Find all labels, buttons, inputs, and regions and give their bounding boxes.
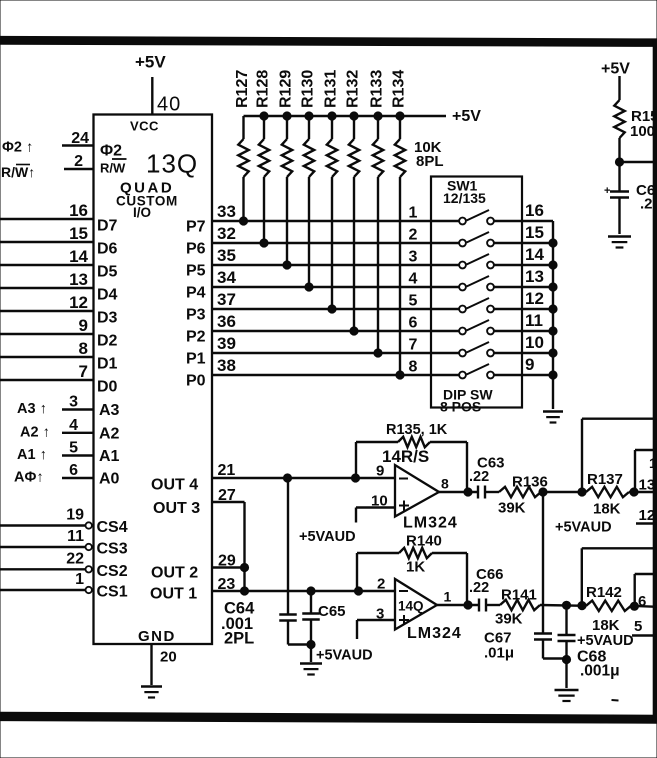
pin 3 wire (A3) [62, 394, 94, 411]
svg-text:.2: .2 [640, 196, 653, 213]
resistor R127 [238, 116, 248, 225]
label R127 [234, 70, 251, 108]
svg-text:.01μ: .01μ [484, 645, 514, 662]
svg-text:R129: R129 [278, 70, 295, 108]
svg-text:P3: P3 [186, 307, 206, 324]
signal &#934;2&#8593; [2, 140, 33, 156]
pin 7 wire (D0) [0, 362, 94, 381]
capacitor C65 [302, 591, 345, 662]
svg-text:13: 13 [525, 267, 544, 286]
pin label P6 [186, 241, 206, 258]
pin 20 wire (GND) [152, 644, 177, 685]
svg-text:R128: R128 [255, 70, 272, 108]
svg-text:38: 38 [217, 356, 236, 375]
svg-text:D1: D1 [97, 356, 118, 373]
pin 21 wire (OUT 4) [212, 462, 395, 479]
svg-text:R132: R132 [345, 70, 362, 108]
svg-text:11: 11 [67, 528, 84, 545]
label R133 [369, 70, 386, 108]
svg-text:A0: A0 [99, 471, 120, 488]
pin 29 wire (OUT 2) [212, 553, 249, 572]
ground (RC filter) [608, 237, 631, 248]
svg-text:Φ2 ↑: Φ2 ↑ [2, 140, 33, 156]
pin label P2 [186, 329, 206, 346]
wire R15 to C [615, 138, 623, 192]
pin 13 wire [522, 267, 557, 291]
svg-text:18K: 18K [592, 617, 620, 634]
pin 40 (VCC) [157, 94, 181, 116]
svg-text:6: 6 [69, 462, 78, 479]
svg-text:D0: D0 [97, 379, 118, 396]
pin label D6 [97, 241, 118, 258]
svg-text:.001μ: .001μ [580, 663, 620, 680]
op-amp U14Q [376, 576, 462, 643]
svg-text:13Q: 13Q [146, 149, 198, 179]
svg-text:12: 12 [525, 289, 544, 308]
pin 16 wire [522, 201, 553, 221]
svg-text:R130: R130 [300, 70, 317, 108]
svg-text:6: 6 [409, 315, 418, 332]
svg-text:.22: .22 [469, 469, 489, 485]
svg-text:P1: P1 [186, 351, 206, 368]
wire C63 to R136 [485, 491, 499, 493]
capacitor C68 .001u [558, 605, 620, 688]
svg-text:19: 19 [66, 507, 84, 524]
wire loop (lower) [582, 548, 657, 605]
ground (IC) [141, 687, 162, 698]
pin 23 wire (OUT 1) [212, 576, 395, 595]
svg-text:14: 14 [69, 247, 88, 266]
pin label OUT 2 [151, 565, 198, 582]
wire OUT4 junction to R135 [351, 474, 359, 482]
resistor R132 [349, 112, 359, 335]
svg-text:1K: 1K [406, 559, 425, 576]
svg-text:16: 16 [69, 201, 88, 220]
pin 1 wire (CS1) [0, 571, 92, 593]
svg-text:10: 10 [525, 333, 544, 352]
svg-text:I/O: I/O [133, 205, 151, 220]
pin 9 wire [522, 355, 557, 379]
svg-text:8: 8 [409, 359, 418, 376]
svg-text:R/W: R/W [100, 161, 126, 176]
pin 10 wire [522, 333, 557, 357]
svg-text:A1: A1 [99, 448, 120, 465]
svg-text:CS4: CS4 [97, 519, 128, 536]
label R128 [255, 70, 272, 108]
IC (cut) pins 6/5 [632, 574, 657, 636]
svg-text:R134: R134 [391, 70, 408, 108]
svg-text:C65: C65 [318, 603, 346, 620]
wire loop (upper) [582, 419, 657, 492]
svg-text:GND: GND [138, 628, 176, 645]
wire op-amp2 output [437, 601, 479, 609]
wire pin3 to +5VAUD [357, 620, 395, 639]
svg-text:P0: P0 [186, 373, 206, 390]
IC (cut) pins 13/12 [635, 450, 657, 524]
switch pole 8 [409, 359, 522, 379]
pin label A1 [99, 448, 120, 465]
svg-text:CS2: CS2 [97, 563, 128, 580]
svg-text:39K: 39K [498, 500, 526, 517]
svg-text:39: 39 [217, 334, 236, 353]
pin label A3 [99, 402, 120, 419]
wire OUT4 junction to C64 [283, 474, 291, 482]
pin label OUT 1 [150, 586, 197, 603]
pin label D7 [97, 218, 118, 235]
capacitor C6 [604, 182, 655, 213]
resistor R129 [282, 112, 292, 269]
svg-text:8: 8 [441, 476, 449, 492]
svg-text:D7: D7 [97, 218, 118, 235]
pin 6 wire (A0) [62, 462, 94, 479]
pin 15 wire [522, 223, 557, 247]
svg-text:35: 35 [217, 246, 236, 265]
pin label D4 [97, 287, 118, 304]
pin 5 wire (A1) [62, 440, 94, 457]
op-amp U14R/S [371, 447, 458, 532]
svg-text:15: 15 [525, 223, 544, 242]
svg-text:1: 1 [409, 205, 418, 222]
svg-text:.22: .22 [469, 580, 489, 596]
pin 33 wire (P7) [212, 202, 459, 221]
svg-text:2: 2 [409, 227, 418, 244]
svg-text:29: 29 [218, 553, 236, 570]
ground (C67/C68) [555, 690, 579, 701]
svg-text:+5V: +5V [601, 61, 630, 78]
pin 12 wire (D3) [0, 293, 94, 312]
switch pole 3 [409, 249, 522, 269]
capacitor C64 .001 2PL [221, 478, 297, 648]
pin label D0 [97, 379, 118, 396]
svg-text:R133: R133 [369, 70, 386, 108]
resistor R142 18K [586, 584, 631, 634]
svg-text:OUT 4: OUT 4 [151, 477, 198, 494]
svg-text:R127: R127 [234, 70, 251, 108]
pin 4 wire (A2) [62, 417, 94, 434]
svg-text:7: 7 [79, 362, 88, 381]
svg-text:23: 23 [218, 576, 236, 593]
pin label P3 [186, 307, 206, 324]
pin 12 wire [522, 289, 557, 313]
svg-text:+5VAUD: +5VAUD [316, 648, 373, 664]
ground (SW1 bus) [543, 412, 563, 423]
svg-text:34: 34 [217, 268, 236, 287]
net +5VAUD (pin3) [316, 648, 373, 664]
svg-text:R140: R140 [406, 533, 442, 550]
svg-text:1: 1 [444, 589, 452, 605]
pin 39 wire (P1) [212, 334, 459, 353]
ground (C64/C65) [300, 664, 322, 675]
svg-text:+: + [604, 185, 610, 197]
label R129 [278, 70, 295, 108]
svg-text:D6: D6 [97, 241, 118, 258]
resistor R134 [395, 112, 405, 379]
svg-text:P5: P5 [186, 263, 206, 280]
wire C67 to C68 node [543, 657, 567, 659]
svg-text:14: 14 [649, 455, 657, 471]
pin label CS1 [97, 584, 128, 601]
pin 11 wire (CS3) [0, 528, 92, 550]
svg-text:9: 9 [79, 316, 88, 335]
resistor R15 [614, 100, 657, 140]
switch pole 2 [409, 227, 522, 247]
label R131 [323, 70, 340, 108]
svg-text:D2: D2 [97, 333, 118, 350]
svg-text:27: 27 [218, 487, 236, 504]
pin label CS2 [97, 563, 128, 580]
node R141/R142 [540, 601, 586, 610]
resistor R128 [259, 112, 269, 247]
svg-text:4: 4 [409, 271, 418, 288]
capacitor C66 .22 [469, 566, 504, 612]
pin 36 wire (P2) [212, 312, 459, 331]
wire R142 to pin 6 [630, 602, 657, 610]
svg-text:2: 2 [74, 153, 83, 170]
svg-text:P2: P2 [186, 329, 206, 346]
svg-text:5: 5 [409, 293, 418, 310]
svg-text:33: 33 [217, 202, 236, 221]
pin label D5 [97, 264, 118, 281]
svg-text:+5V: +5V [452, 108, 481, 125]
svg-text:+5VAUD: +5VAUD [555, 520, 612, 536]
pin label P1 [186, 351, 206, 368]
wire OUT1 junction to R140 [354, 587, 362, 595]
svg-text:VCC: VCC [130, 119, 159, 134]
pin 15 wire (D6) [0, 224, 94, 243]
pin label P5 [186, 263, 206, 280]
svg-text:13: 13 [639, 477, 656, 494]
resistor R130 [304, 112, 314, 291]
signal R/W&#8593; [1, 164, 35, 180]
pin 14 wire [522, 245, 557, 269]
label R130 [300, 70, 317, 108]
pin 13 wire (D4) [0, 270, 94, 289]
pin label CS4 [97, 519, 128, 536]
pin label P7 [186, 219, 206, 236]
wire to edge [620, 161, 657, 163]
svg-text:12: 12 [69, 293, 88, 312]
pin 19 wire (CS4) [0, 507, 92, 529]
pin 32 wire (P6) [212, 224, 459, 243]
svg-text:1: 1 [75, 571, 84, 588]
svg-text:A2 ↑: A2 ↑ [20, 424, 50, 440]
svg-text:OUT 2: OUT 2 [151, 565, 198, 582]
svg-text:A1 ↑: A1 ↑ [17, 447, 47, 463]
svg-text:OUT 1: OUT 1 [150, 586, 197, 603]
svg-text:18K: 18K [593, 501, 621, 518]
switch pole 7 [409, 337, 522, 357]
pin 9 wire (D2) [0, 316, 94, 335]
svg-text:R141: R141 [501, 587, 537, 604]
svg-text:14: 14 [525, 245, 544, 264]
svg-text:22: 22 [66, 550, 84, 567]
svg-text:A3 ↑: A3 ↑ [17, 401, 47, 417]
pin 2 (R/W) wire [64, 153, 94, 170]
resistor R141 39K [495, 587, 540, 628]
value 10K 8PL [414, 139, 444, 170]
capacitor C67 .01u [484, 492, 552, 662]
svg-text:3: 3 [69, 394, 78, 411]
svg-text:5: 5 [634, 618, 642, 635]
svg-text:A2: A2 [99, 425, 120, 442]
node R136/R137 [539, 488, 586, 496]
svg-text:CS1: CS1 [97, 584, 128, 601]
svg-text:7: 7 [409, 337, 418, 354]
switch pole 4 [409, 271, 522, 291]
svg-text:3: 3 [409, 249, 418, 266]
svg-text:5: 5 [69, 440, 78, 457]
svg-text:P6: P6 [186, 241, 206, 258]
resistor R137 18K [586, 471, 629, 518]
net +5VAUD (pin5) [577, 633, 634, 649]
svg-text:12/135: 12/135 [443, 190, 486, 206]
label R135, 1K [386, 422, 448, 438]
pin 38 wire (P0) [212, 356, 459, 375]
net +5V (RC filter) [601, 61, 630, 101]
pin label A2 [99, 425, 120, 442]
pin 34 wire (P4) [212, 268, 459, 287]
signal A3&#8593; [17, 401, 47, 417]
svg-text:+5VAUD: +5VAUD [577, 633, 634, 649]
svg-text:9: 9 [525, 355, 534, 374]
svg-text:D5: D5 [97, 264, 118, 281]
switch pole 6 [409, 315, 522, 335]
svg-text:R131: R131 [323, 70, 340, 108]
wire pin10 to +5VAUD [356, 508, 395, 523]
pin label D1 [97, 356, 118, 373]
svg-text:D3: D3 [97, 310, 118, 327]
svg-text:+5VAUD: +5VAUD [299, 529, 356, 545]
resistor R133 [373, 112, 383, 357]
resistor R136 39K [498, 474, 548, 517]
signal A2&#8593; [20, 424, 50, 440]
svg-text:13: 13 [69, 270, 88, 289]
svg-text:OUT 3: OUT 3 [153, 500, 200, 517]
resistor R135 1K feedback [356, 437, 467, 492]
label R132 [345, 70, 362, 108]
pin 24 (&#934;2) wire [62, 130, 94, 147]
svg-text:20: 20 [160, 649, 177, 666]
svg-text:16: 16 [525, 201, 544, 220]
pin label A0 [99, 471, 120, 488]
net +5V (IC supply) [135, 53, 166, 72]
net +5VAUD (pin12) [555, 520, 612, 536]
svg-text:37: 37 [217, 290, 236, 309]
capacitor C63 .22 [469, 455, 505, 499]
svg-text:R/W↑: R/W↑ [1, 164, 35, 180]
net +5VAUD (pin10) [299, 529, 356, 545]
pin label OUT 4 [151, 477, 198, 494]
svg-text:11: 11 [525, 311, 543, 330]
svg-text:CS3: CS3 [97, 541, 128, 558]
svg-text:15: 15 [69, 224, 88, 243]
svg-text:6: 6 [638, 593, 646, 610]
pin 22 wire (CS2) [0, 550, 92, 572]
pin 27 wire (OUT 3) [212, 487, 245, 591]
net +5V (pull-up rail) [244, 108, 482, 125]
label R140 [406, 533, 442, 576]
wire OUT1 junction to C65 [307, 587, 315, 595]
svg-text:8: 8 [79, 339, 88, 358]
switch pole 5 [409, 293, 522, 313]
svg-text:12: 12 [639, 507, 656, 524]
svg-text:LM324: LM324 [407, 625, 462, 642]
svg-text:14R/S: 14R/S [382, 447, 429, 466]
pin label D2 [97, 333, 118, 350]
svg-text:8PL: 8PL [416, 153, 444, 170]
pin 14 wire (D5) [0, 247, 94, 266]
resistor R131 [327, 112, 337, 313]
wire C66 to R141 [486, 604, 500, 606]
pin 8 wire (D1) [0, 339, 94, 358]
svg-text:R137: R137 [587, 471, 623, 488]
wire +5V to pin 40 [151, 77, 153, 115]
svg-text:P4: P4 [186, 285, 206, 302]
signal A0&#8593; [14, 470, 44, 486]
svg-text:D4: D4 [97, 287, 118, 304]
label R134 [391, 70, 408, 108]
svg-text:39K: 39K [495, 611, 523, 628]
svg-text:24: 24 [71, 130, 89, 147]
IC U13Q QUAD CUSTOM I/O [94, 115, 213, 646]
pin label P0 [186, 373, 206, 390]
svg-text:A3: A3 [99, 402, 120, 419]
svg-text:9: 9 [376, 463, 384, 480]
switch SW1 12/135 DIP SW 8 POS [431, 177, 522, 415]
resistor R140 1K feedback [357, 548, 467, 605]
svg-text:36: 36 [217, 312, 236, 331]
pin label OUT 3 [153, 500, 200, 517]
svg-text:4: 4 [69, 417, 78, 434]
svg-text:21: 21 [218, 462, 236, 479]
svg-text:14Q: 14Q [398, 599, 424, 614]
pin 35 wire (P5) [212, 246, 459, 265]
svg-text:R135, 1K: R135, 1K [386, 422, 448, 438]
pin label P4 [186, 285, 206, 302]
svg-text:Φ2: Φ2 [100, 143, 122, 160]
svg-text:8 POS: 8 POS [440, 399, 481, 415]
svg-text:2PL: 2PL [224, 630, 254, 648]
pin 37 wire (P3) [212, 290, 459, 309]
svg-text:100: 100 [630, 123, 655, 140]
pin label D3 [97, 310, 118, 327]
svg-text:P7: P7 [186, 219, 206, 236]
pin label CS3 [97, 541, 128, 558]
svg-text:AΦ↑: AΦ↑ [14, 470, 44, 486]
svg-text:LM324: LM324 [403, 515, 458, 532]
wire C64 to C65 node [288, 643, 311, 645]
svg-text:40: 40 [157, 94, 181, 116]
wire switch common bus [552, 221, 554, 409]
wire R137 to pin 13 [629, 488, 657, 496]
signal A1&#8593; [17, 447, 47, 463]
switch pole 1 [409, 205, 522, 225]
pin 16 wire (D7) [0, 201, 94, 220]
svg-text:+5V: +5V [135, 53, 166, 72]
wire C to ground [618, 198, 620, 235]
svg-text:2: 2 [377, 576, 385, 593]
pin 11 wire [522, 311, 557, 335]
svg-text:32: 32 [217, 224, 236, 243]
svg-text:R142: R142 [586, 584, 622, 601]
wire op-amp1 output [439, 488, 478, 496]
